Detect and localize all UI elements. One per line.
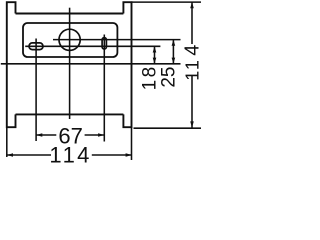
left end plate <box>7 2 16 127</box>
face plate rounded rectangle <box>23 23 117 57</box>
big circle hole <box>59 29 80 50</box>
slot center reference line <box>25 45 160 47</box>
arrow 25 top <box>172 40 176 46</box>
circle center reference line <box>53 39 181 41</box>
svg-text:1: 1 <box>63 143 75 165</box>
body top edge <box>16 13 124 15</box>
svg-text:4: 4 <box>77 143 89 165</box>
right plate extension below <box>131 127 133 160</box>
arrow 18 bottom <box>153 58 157 64</box>
left slot hole <box>29 43 43 50</box>
dim 67 line <box>36 134 104 136</box>
arrow 18 top <box>153 46 157 52</box>
mounting surface line <box>1 63 181 65</box>
bottom right extension line <box>134 127 202 129</box>
svg-text:4: 4 <box>182 45 202 56</box>
right slot vertical centerline / extension <box>103 35 105 142</box>
arrow 114 right top <box>190 2 194 8</box>
circle vertical centerline <box>69 8 71 119</box>
arrow 67 left <box>36 133 42 137</box>
svg-text:1: 1 <box>183 71 202 81</box>
dim 114 right vertical line <box>191 2 193 128</box>
body bottom edge <box>16 113 124 115</box>
dim 25 vertical line <box>172 40 174 64</box>
arrow 114 right bottom <box>190 121 194 127</box>
left slot vertical centerline / extension <box>35 39 37 142</box>
arrow 25 bottom <box>172 58 176 64</box>
right slot hole <box>102 38 106 49</box>
arrow 114 bottom left <box>7 153 13 157</box>
right end plate <box>123 2 131 127</box>
top extension line <box>132 1 202 3</box>
left plate extension below <box>6 127 8 157</box>
svg-text:5: 5 <box>158 67 179 78</box>
dim 114 bottom line <box>7 154 132 156</box>
svg-text:2: 2 <box>158 77 179 88</box>
svg-text:1: 1 <box>183 60 202 70</box>
arrow 67 right <box>98 133 104 137</box>
dim 18 vertical line <box>154 46 156 64</box>
arrow 114 bottom right <box>126 153 132 157</box>
svg-text:1: 1 <box>49 143 61 165</box>
